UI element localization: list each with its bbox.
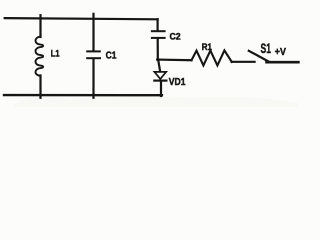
wire C2 branch top [157,19,159,30]
wire top bus [5,18,158,19]
wire L1 bottom stub [39,75,41,97]
wire diode anode stub [158,60,160,72]
svg-text:C2: C2 [170,31,181,41]
wire switch to +V [267,61,299,64]
wire L1 top stub [39,15,41,37]
wire junction to R1 [157,58,191,61]
wire C1 top stub [92,14,94,51]
wire R1 to switch [232,61,255,63]
svg-text:L1: L1 [51,48,60,59]
svg-text:VD1: VD1 [169,76,186,87]
diode VD1 [154,72,166,81]
capacitor C2 [152,31,165,38]
svg-text:R1: R1 [202,41,212,52]
wire bottom bus [4,94,162,96]
wire C1 bottom stub [92,59,94,98]
switch S1 blade [249,51,270,62]
svg-text:+V: +V [275,46,287,58]
inductor L1 [35,37,43,76]
wire diode bottom stub [160,82,162,96]
svg-text:S1: S1 [261,42,271,56]
scan noise smudge [14,95,298,107]
resistor R1 [192,50,232,65]
svg-text:C1: C1 [106,50,117,61]
wire C2 to junction [157,39,159,60]
capacitor C1 [87,51,100,58]
